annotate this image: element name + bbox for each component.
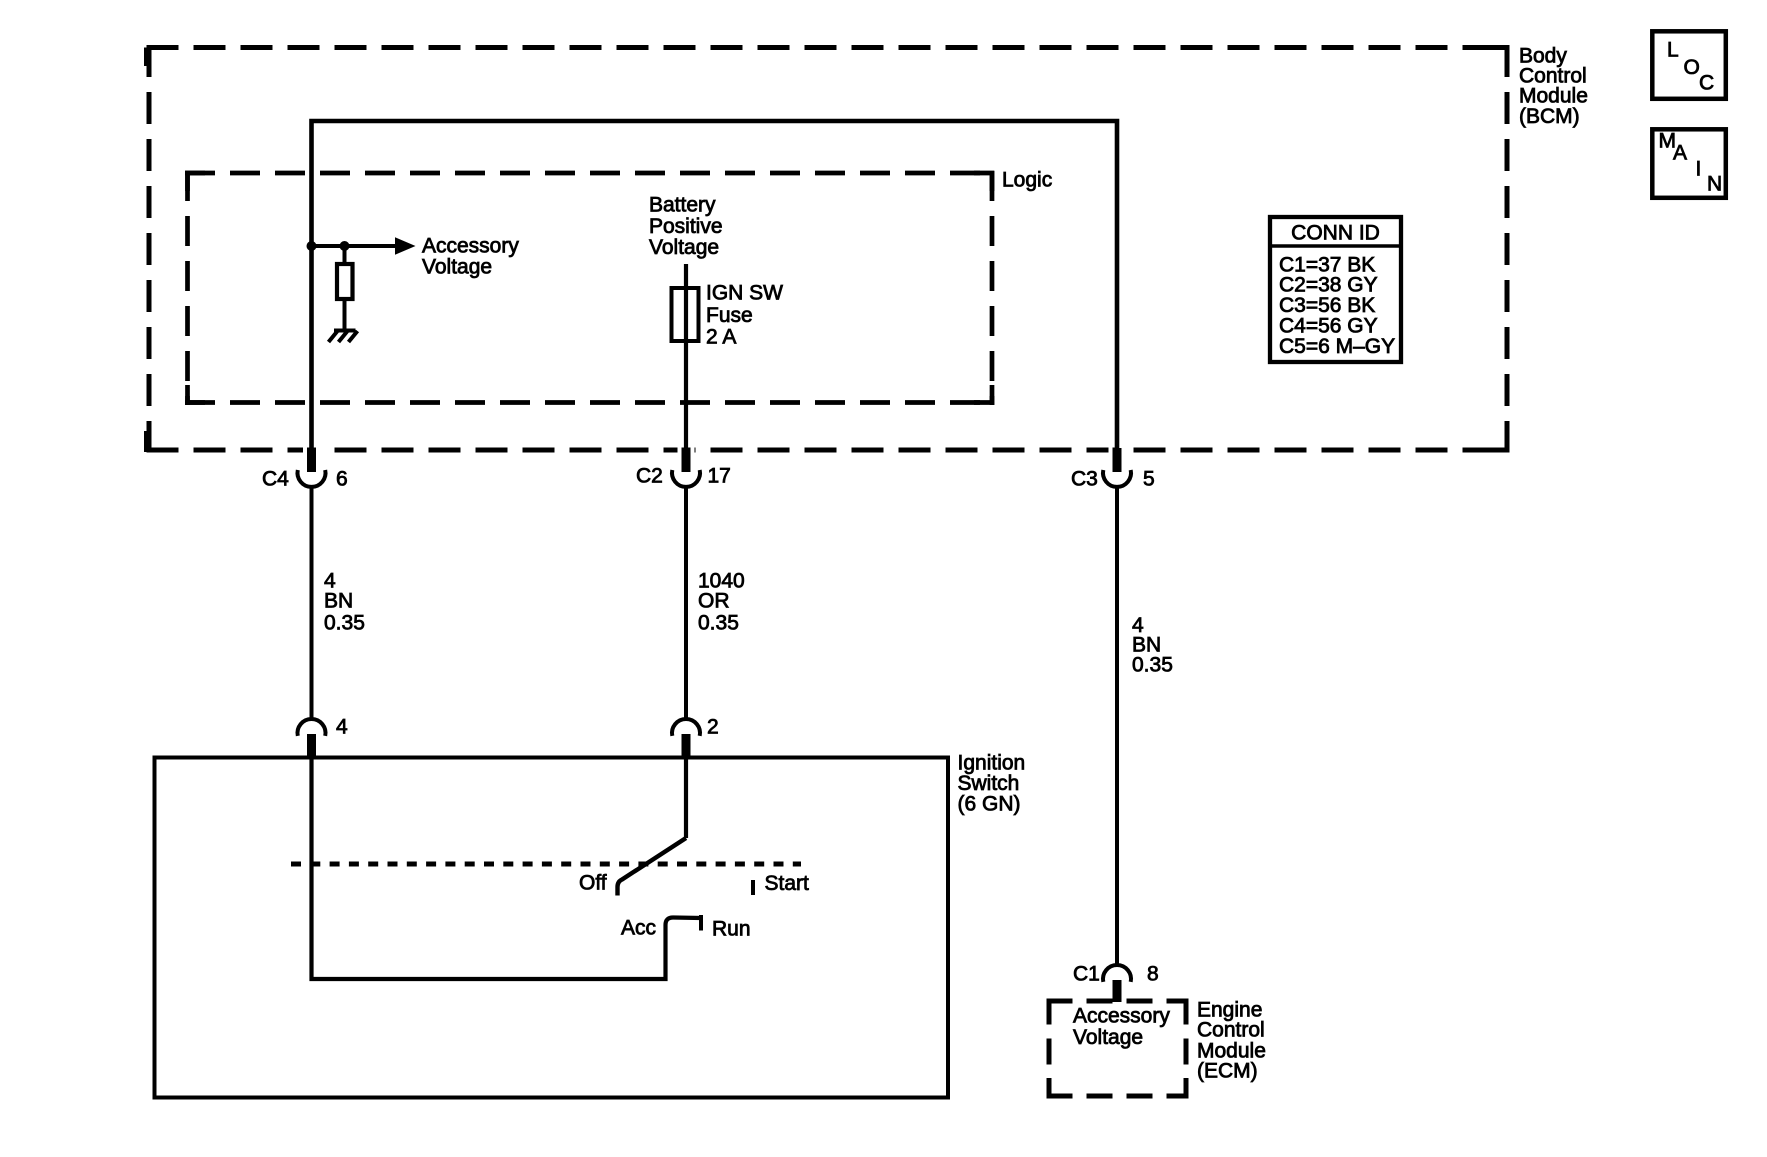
svg-text:0.35: 0.35 (1132, 653, 1173, 676)
wire: ignition internal from pin 2 down to blade pivot (684, 757, 688, 838)
switch blade (from pin 2 toward Off) (618, 838, 687, 896)
svg-text:C: C (1699, 71, 1714, 94)
svg-text:17: 17 (708, 464, 731, 487)
svg-text:L: L (1667, 38, 1679, 61)
MAIN legend box (1652, 129, 1726, 198)
wire: 4 BN 0.35 from C4-6 to ignition pin 4 (310, 487, 314, 719)
svg-text:0.35: 0.35 (324, 611, 365, 634)
node: junction dot on C4 branch (307, 241, 317, 251)
ground symbol (329, 331, 358, 343)
detent dotted line (291, 862, 801, 867)
BCM box corner ticks (147, 45, 1508, 452)
svg-text:N: N (1707, 173, 1722, 196)
label: Body Control Module (BCM) (1519, 44, 1588, 128)
wire: 1040 OR 0.35 from C2-17 to ignition pin 2 (684, 487, 688, 719)
logic box: dashed Logic outline inside BCM (185, 171, 994, 405)
label: Accessory Voltage (BCM internal) (422, 234, 519, 278)
svg-text:CONN ID: CONN ID (1291, 221, 1380, 244)
svg-text:O: O (1684, 56, 1700, 79)
wire: battery feed down through fuse to C2 (684, 264, 688, 450)
LOC legend box (1652, 31, 1726, 99)
svg-text:Acc: Acc (621, 916, 656, 939)
wire: 4 BN 0.35 from C3-5 to ECM C1-8 (1115, 487, 1119, 965)
connector pin 2 (ignition switch) (672, 715, 719, 758)
svg-text:I: I (1696, 157, 1702, 180)
svg-text:(BCM): (BCM) (1519, 105, 1580, 128)
svg-text:C3: C3 (1071, 468, 1098, 491)
svg-text:C5=6 M–GY: C5=6 M–GY (1279, 335, 1395, 358)
svg-text:2 A: 2 A (706, 325, 736, 348)
connector C2 pin 17 (BCM) (636, 446, 731, 487)
svg-text:C4: C4 (262, 468, 289, 491)
connector C1 pin 8 (ECM) (1073, 962, 1159, 1002)
svg-text:Run: Run (712, 917, 751, 940)
svg-text:4: 4 (336, 715, 348, 738)
svg-text:Fuse: Fuse (706, 304, 753, 327)
connector pin 4 (ignition switch) (298, 715, 349, 758)
connector C4 pin 6 (BCM) (262, 446, 348, 491)
svg-text:Accessory: Accessory (422, 234, 519, 257)
label: 1040 OR 0.35 (698, 569, 745, 634)
svg-text:BN: BN (324, 589, 353, 612)
svg-text:Voltage: Voltage (422, 255, 492, 278)
wire: ignition internal from pin 4 down and across to Acc contact (312, 757, 702, 979)
svg-text:Voltage: Voltage (1073, 1026, 1143, 1049)
module box: Body Control Module (BCM) dashed outline (147, 45, 1508, 453)
label: Engine Control Module (ECM) (1197, 998, 1266, 1082)
svg-text:IGN SW: IGN SW (706, 281, 783, 304)
label: Battery Positive Voltage (649, 193, 723, 258)
label: Ignition Switch (6 GN) (958, 751, 1026, 815)
svg-text:(ECM): (ECM) (1197, 1059, 1258, 1082)
ignition switch box (155, 758, 949, 1098)
svg-text:Positive: Positive (649, 215, 723, 238)
CONN ID table (1268, 217, 1403, 362)
svg-text:C1: C1 (1073, 962, 1100, 985)
Logic box corner ticks (188, 173, 993, 403)
svg-text:Voltage: Voltage (649, 236, 719, 259)
contact tick: Start (751, 880, 755, 895)
svg-text:A: A (1673, 142, 1687, 165)
label: 4 BN 0.35 (right) (1132, 614, 1173, 677)
contact tick: Run (699, 915, 703, 931)
svg-text:Start: Start (765, 872, 810, 895)
connector C3 pin 5 (BCM) (1071, 446, 1155, 491)
label: IGN SW Fuse 2 A (706, 281, 783, 348)
ECM box corner ticks (1049, 1001, 1186, 1096)
svg-text:Off: Off (579, 871, 607, 894)
label: 4 BN 0.35 (left) (324, 569, 365, 634)
node: junction dot at resistor tap (340, 241, 350, 251)
svg-text:OR: OR (698, 589, 730, 612)
svg-text:Battery: Battery (649, 193, 716, 216)
wire: top bus from C4 branch across to C3 branch (312, 121, 1118, 450)
resistor R (BCM internal) (337, 246, 353, 331)
label: Accessory Voltage (ECM internal) (1073, 1004, 1170, 1049)
wire: accessory voltage arrow (312, 244, 397, 248)
svg-text:0.35: 0.35 (698, 611, 739, 634)
svg-text:(6 GN): (6 GN) (958, 792, 1021, 815)
svg-text:8: 8 (1147, 962, 1159, 985)
svg-text:Logic: Logic (1002, 168, 1052, 191)
svg-text:2: 2 (707, 715, 719, 738)
svg-text:Accessory: Accessory (1073, 1004, 1170, 1027)
svg-text:6: 6 (336, 468, 348, 491)
fuse: IGN SW Fuse 2 A (672, 288, 699, 341)
svg-text:5: 5 (1143, 468, 1155, 491)
svg-text:Control: Control (1197, 1019, 1265, 1042)
module box: Engine Control Module (ECM) dashed outline (1047, 999, 1189, 1099)
svg-text:C2: C2 (636, 464, 663, 487)
